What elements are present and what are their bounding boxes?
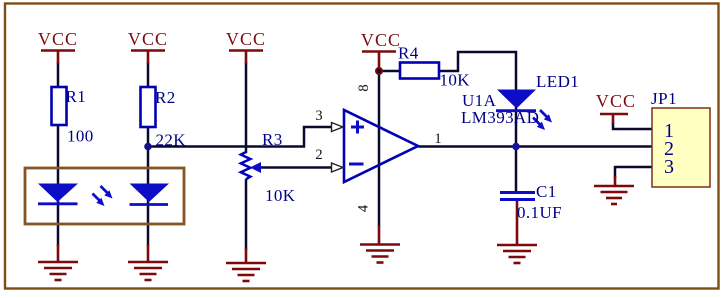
svg-text:R3: R3: [262, 130, 283, 149]
svg-text:VCC: VCC: [128, 29, 168, 49]
svg-text:4: 4: [356, 204, 372, 212]
svg-text:10K: 10K: [265, 186, 296, 205]
svg-text:VCC: VCC: [38, 29, 78, 49]
svg-text:VCC: VCC: [596, 91, 636, 111]
svg-text:R4: R4: [398, 44, 419, 63]
svg-text:R1: R1: [66, 87, 87, 106]
svg-text:2: 2: [315, 147, 322, 163]
svg-text:LED1: LED1: [536, 72, 579, 91]
svg-text:22K: 22K: [156, 131, 187, 150]
svg-text:10K: 10K: [440, 71, 471, 90]
svg-text:3: 3: [664, 156, 674, 178]
svg-text:0.1UF: 0.1UF: [517, 203, 562, 222]
svg-text:1: 1: [434, 131, 441, 147]
svg-text:C1: C1: [536, 182, 557, 201]
svg-text:3: 3: [315, 108, 322, 124]
svg-text:VCC: VCC: [226, 29, 266, 49]
svg-text:R2: R2: [155, 88, 176, 107]
svg-text:8: 8: [356, 84, 372, 91]
svg-text:100: 100: [67, 127, 94, 146]
svg-text:LM393AD: LM393AD: [461, 108, 539, 127]
svg-text:VCC: VCC: [361, 30, 401, 50]
svg-text:JP1: JP1: [651, 89, 677, 108]
